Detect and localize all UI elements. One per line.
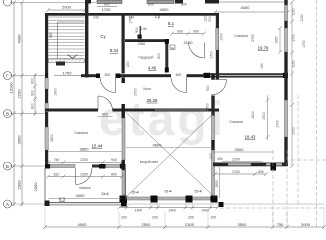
B-row lower dim chain 810/2300/890 bbox=[48, 176, 122, 178]
second-light cross diagonal 2 bbox=[126, 112, 216, 198]
svg-text:2000: 2000 bbox=[62, 5, 72, 10]
svg-text:900: 900 bbox=[135, 27, 139, 33]
left small dim chain between G and V bbox=[34, 74, 36, 116]
bedroom-left top wall bbox=[45, 109, 98, 112]
axis circle G bbox=[4, 72, 12, 80]
stair bottom dim 1700 bbox=[54, 75, 81, 77]
stair direction chevron bbox=[68, 55, 78, 59]
svg-text:1150: 1150 bbox=[300, 14, 304, 21]
svg-text:200: 200 bbox=[209, 153, 213, 159]
svg-text:900: 900 bbox=[206, 85, 210, 91]
axis line G bbox=[10, 75, 46, 77]
svg-text:200: 200 bbox=[188, 215, 194, 219]
garderob right wall vertical bbox=[165, 39, 168, 73]
wall G row: jamb block bbox=[96, 74, 100, 79]
dashed vertical x287 bbox=[286, 150, 288, 226]
door bedroom-left bbox=[97, 96, 99, 110]
dims 600/900 hall top bbox=[172, 33, 204, 35]
terrace edge line bbox=[219, 167, 221, 198]
bedroom1 window dim 1650 bbox=[279, 28, 281, 52]
svg-text:Су: Су bbox=[155, 14, 161, 19]
svg-text:1700: 1700 bbox=[276, 120, 280, 128]
svg-text:4000: 4000 bbox=[241, 5, 251, 10]
svg-text:4000: 4000 bbox=[17, 34, 22, 44]
dim 900 bedroom-left door bbox=[98, 116, 113, 118]
svg-text:2100: 2100 bbox=[17, 89, 22, 99]
svg-text:750: 750 bbox=[54, 158, 60, 162]
svg-text:200: 200 bbox=[126, 61, 130, 67]
axis line B bbox=[10, 165, 46, 167]
svg-text:2700: 2700 bbox=[134, 88, 138, 96]
svg-text:600: 600 bbox=[31, 78, 35, 84]
svg-text:900: 900 bbox=[193, 29, 199, 33]
second-light cross diagonal 1 bbox=[126, 112, 216, 198]
svg-text:Спальня: Спальня bbox=[74, 131, 88, 135]
svg-text:2800: 2800 bbox=[50, 134, 54, 142]
svg-text:890: 890 bbox=[111, 172, 117, 176]
svg-text:1700: 1700 bbox=[63, 70, 73, 75]
svg-text:800: 800 bbox=[148, 2, 154, 6]
left exterior wall bbox=[45, 13, 48, 74]
svg-text:1400: 1400 bbox=[201, 209, 209, 213]
svg-text:4500: 4500 bbox=[160, 7, 170, 12]
svg-text:1700: 1700 bbox=[210, 51, 214, 59]
svg-text:600: 600 bbox=[258, 170, 264, 174]
below wing dims 2100/600 bbox=[215, 173, 266, 175]
svg-text:1900: 1900 bbox=[54, 88, 58, 96]
svg-text:600: 600 bbox=[177, 29, 183, 33]
svg-text:второй свет: второй свет bbox=[140, 160, 159, 164]
vtoroy svet bottom wall with columns bbox=[127, 197, 211, 200]
svg-text:Су: Су bbox=[100, 34, 106, 39]
svg-text:750: 750 bbox=[277, 222, 284, 227]
svg-text:140: 140 bbox=[260, 63, 264, 69]
svg-text:8.1: 8.1 bbox=[168, 21, 175, 26]
svg-text:4000: 4000 bbox=[76, 193, 86, 198]
svg-text:2000: 2000 bbox=[301, 222, 311, 227]
svg-text:1400: 1400 bbox=[168, 209, 176, 213]
door G-wall mid (hall) bbox=[186, 78, 188, 93]
svg-text:Ст-4: Ст-4 bbox=[101, 192, 108, 196]
svg-text:800: 800 bbox=[104, 2, 110, 6]
svg-text:А: А bbox=[6, 202, 9, 207]
dashed vertical x316 bbox=[316, 0, 318, 227]
svg-text:2100: 2100 bbox=[232, 170, 240, 174]
svg-text:800: 800 bbox=[105, 73, 111, 77]
staircase landing hatch bbox=[49, 59, 85, 63]
left total dim chain 13100 bbox=[13, 2, 15, 206]
svg-text:960: 960 bbox=[49, 32, 53, 38]
svg-text:1700: 1700 bbox=[220, 33, 224, 41]
wall G row: segment right of door2 bbox=[187, 74, 206, 77]
right wing east wall bbox=[284, 0, 287, 5]
svg-text:1950: 1950 bbox=[215, 180, 219, 188]
right wing top face line bbox=[219, 1, 288, 3]
svg-text:4600: 4600 bbox=[153, 142, 163, 147]
dashed vertical x300 bbox=[297, 95, 299, 207]
svg-text:Ст-4: Ст-4 bbox=[194, 190, 201, 194]
hall bottom wall y110 bbox=[113, 109, 220, 112]
svg-text:В: В bbox=[6, 111, 9, 116]
svg-text:18.43: 18.43 bbox=[245, 135, 256, 140]
svg-text:940: 940 bbox=[111, 158, 117, 162]
vtoroy svet right wall bbox=[211, 74, 214, 80]
svg-text:Б: Б bbox=[6, 164, 9, 169]
svg-text:Балкон: Балкон bbox=[79, 186, 90, 190]
wing interior wall on G row (insulated) bbox=[203, 73, 288, 77]
svg-text:2200: 2200 bbox=[232, 158, 240, 162]
svg-text:400: 400 bbox=[217, 157, 223, 161]
svg-text:900: 900 bbox=[31, 90, 35, 96]
svg-text:Ст-4: Ст-4 bbox=[164, 190, 171, 194]
dashed horizontal y208 bbox=[220, 207, 326, 209]
vtoroy svet left wall bbox=[122, 112, 125, 118]
svg-text:200: 200 bbox=[211, 215, 217, 219]
svg-text:200: 200 bbox=[152, 215, 158, 219]
right wing top dim 4000 bbox=[215, 11, 288, 13]
axis circle A bbox=[4, 200, 12, 208]
svg-text:1700: 1700 bbox=[292, 127, 296, 135]
right side dim chain x292 bbox=[291, 2, 293, 166]
stairs top dim 2000 bbox=[48, 9, 85, 11]
svg-text:2000: 2000 bbox=[17, 180, 22, 190]
svg-text:1500: 1500 bbox=[262, 112, 266, 120]
svg-text:2300: 2300 bbox=[185, 222, 195, 227]
SU-right / garderob dividing wall horizontal bbox=[125, 39, 169, 42]
svg-text:900: 900 bbox=[102, 113, 108, 117]
svg-text:2200: 2200 bbox=[80, 158, 88, 162]
dashed horizontal y160 bbox=[291, 159, 326, 161]
bedroom2 vertical dims bbox=[267, 95, 269, 140]
svg-text:200: 200 bbox=[121, 215, 127, 219]
svg-text:25.26: 25.26 bbox=[147, 98, 158, 103]
svg-text:8.34: 8.34 bbox=[110, 48, 119, 53]
right wing bottom wall bbox=[213, 163, 288, 167]
svg-text:1600: 1600 bbox=[251, 111, 255, 119]
svg-text:4.46: 4.46 bbox=[148, 66, 157, 71]
svg-text:1700: 1700 bbox=[302, 40, 306, 48]
svg-text:Ст-4: Ст-4 bbox=[131, 191, 138, 195]
axis circle V bbox=[4, 110, 12, 118]
svg-text:13100: 13100 bbox=[9, 82, 14, 94]
svg-text:2360: 2360 bbox=[138, 42, 146, 46]
top exterior wall band segments bbox=[85, 0, 91, 4]
stair bottom block bbox=[56, 62, 65, 66]
svg-text:2000: 2000 bbox=[33, 182, 38, 192]
svg-text:800: 800 bbox=[31, 103, 35, 109]
wall G row: segment mid bbox=[121, 74, 172, 77]
wall G row: segment stair side bbox=[81, 74, 100, 77]
lobby vertical wall x123 bbox=[122, 78, 125, 84]
svg-text:140: 140 bbox=[93, 16, 99, 20]
svg-text:1150: 1150 bbox=[292, 8, 296, 15]
dim 4600 bbox=[126, 147, 216, 149]
svg-text:3300: 3300 bbox=[235, 147, 245, 152]
svg-text:3500: 3500 bbox=[238, 222, 248, 227]
axis circle D bbox=[4, 0, 12, 6]
svg-text:1650: 1650 bbox=[275, 36, 279, 44]
svg-text:2300: 2300 bbox=[80, 172, 88, 176]
svg-text:15.44: 15.44 bbox=[92, 144, 103, 149]
axis line A bbox=[10, 203, 324, 205]
stair rail line and inner box bbox=[57, 22, 59, 59]
svg-text:2500: 2500 bbox=[142, 222, 152, 227]
svg-text:1700: 1700 bbox=[206, 103, 210, 111]
bottom main dim chain bbox=[45, 226, 324, 228]
svg-text:810: 810 bbox=[54, 172, 60, 176]
columns dim chain 1400/200 bbox=[120, 207, 218, 209]
svg-text:1150: 1150 bbox=[292, 60, 296, 67]
bedroom2 dim 3300 bbox=[213, 151, 273, 153]
axis circle B bbox=[4, 162, 12, 170]
axis line D bbox=[10, 2, 96, 4]
door bedroom2 (right wing) bbox=[211, 79, 227, 81]
door garderob bbox=[204, 43, 206, 59]
svg-text:600: 600 bbox=[157, 53, 161, 59]
balcony dim 4000 bbox=[49, 198, 123, 200]
boiler box 1v bbox=[170, 45, 175, 50]
su-right shower partition bbox=[140, 26, 141, 39]
svg-text:1в: 1в bbox=[171, 46, 175, 50]
column at A row bbox=[219, 202, 224, 207]
bedroom2 dim 2200 bbox=[222, 161, 262, 163]
svg-text:200: 200 bbox=[208, 16, 212, 22]
hall / bedroom1 divider wall x216 bbox=[216, 13, 219, 28]
B-row upper dim chain 750/2200/940 bbox=[48, 161, 122, 163]
bedroom-left bottom wall (B row) with windows bbox=[45, 164, 50, 169]
terrace column bbox=[271, 163, 277, 171]
svg-text:2750: 2750 bbox=[251, 34, 255, 42]
svg-text:1700: 1700 bbox=[129, 16, 133, 24]
svg-text:8.3: 8.3 bbox=[59, 197, 66, 202]
top dim row 800s bbox=[97, 6, 117, 8]
svg-text:1400: 1400 bbox=[135, 209, 143, 213]
axis line V bbox=[10, 113, 46, 115]
svg-text:4000: 4000 bbox=[78, 222, 88, 227]
svg-text:Спальня: Спальня bbox=[229, 120, 243, 124]
svg-text:Спальня: Спальня bbox=[234, 34, 248, 38]
door G-wall left (to lobby) bbox=[115, 78, 117, 93]
stair right wall bbox=[85, 0, 88, 78]
svg-text:19.78: 19.78 bbox=[258, 46, 269, 51]
svg-text:Гардероб: Гардероб bbox=[139, 56, 154, 60]
svg-text:3800: 3800 bbox=[80, 146, 90, 151]
svg-text:Холл: Холл bbox=[143, 87, 151, 91]
balcony outline bbox=[44, 168, 46, 204]
svg-text:1700: 1700 bbox=[292, 34, 296, 42]
SU-left right wall bbox=[122, 13, 125, 74]
dashed vertical x273 bbox=[272, 150, 274, 226]
svg-text:3000: 3000 bbox=[17, 135, 22, 145]
svg-text:140: 140 bbox=[141, 27, 147, 31]
svg-text:1725: 1725 bbox=[102, 7, 112, 12]
svg-text:800: 800 bbox=[181, 2, 187, 6]
door balcony bbox=[75, 168, 77, 185]
left segment dim chain bbox=[21, 2, 23, 206]
staircase treads bbox=[49, 17, 85, 59]
svg-text:2100: 2100 bbox=[184, 40, 194, 45]
svg-text:600: 600 bbox=[176, 73, 182, 77]
top wall of main part bbox=[45, 13, 219, 16]
